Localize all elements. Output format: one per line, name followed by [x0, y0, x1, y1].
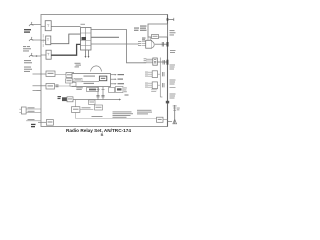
relay box R1 — [87, 88, 99, 92]
wire stub 600-ohm line 2 — [33, 85, 47, 87]
jack J2 box — [46, 36, 51, 45]
wire from W1 to frame — [32, 24, 41, 26]
right margin label 1b — [170, 65, 176, 70]
modem main box — [72, 74, 111, 87]
wire J4 line 1 — [26, 108, 41, 110]
jack J1 box — [45, 21, 51, 31]
filter FL2 pin labels — [145, 83, 148, 88]
modem dark module — [99, 76, 106, 81]
long wire label — [92, 116, 103, 117]
antenna base ground line — [173, 123, 178, 125]
right margin label 3 (TO...) — [170, 94, 176, 99]
R1 dark label — [89, 89, 96, 91]
modem second side box — [66, 79, 73, 83]
antenna AT1 element ticks — [173, 106, 177, 110]
terminal strip TB1 — [81, 28, 92, 51]
C2 inner label — [48, 85, 54, 86]
connector W3 squiggle — [29, 53, 33, 57]
filter FL1 pin stubs — [147, 72, 152, 76]
control box C1 (mid-left) — [46, 71, 55, 77]
TB1 pin 1 lead — [85, 50, 87, 57]
label under FL2 — [151, 89, 157, 92]
pin labels P1 — [138, 41, 141, 46]
power box PS1 — [67, 97, 73, 102]
wire to PP1 from frame — [38, 121, 46, 123]
output label 2 — [118, 79, 124, 80]
modem side box — [66, 73, 74, 78]
wire stub 600-ohm line 1 — [33, 73, 47, 75]
connector W1 squiggle (top left, outside frame) — [29, 22, 33, 26]
right bus (vertical rail on right frame edge) — [167, 15, 169, 127]
filter FL2 pin stubs — [147, 83, 152, 87]
PS1 label — [68, 98, 72, 99]
figure caption — [0, 128, 199, 133]
junction node on W3 wire — [36, 55, 38, 57]
bus node top — [167, 18, 169, 20]
amplifier box AM1 — [72, 107, 80, 113]
label TO ANT (right of bus, upper) — [170, 30, 176, 36]
tick from bottom-right box to bus — [163, 119, 168, 121]
control box C2 — [46, 84, 55, 90]
bus node at K1 wire — [167, 60, 169, 65]
modem lower-left cell — [70, 82, 76, 86]
wire C1 to modem — [55, 74, 66, 76]
pin stubs into connector P1 — [142, 42, 146, 46]
connector P1 circular shell — [152, 41, 154, 47]
right margin label 1 — [170, 50, 176, 53]
modem inner small box text — [75, 79, 81, 80]
label above TB1 — [81, 24, 86, 25]
modem internal text 2 — [84, 83, 95, 84]
wire A: TB1 to relay K1 (stepped long run) — [91, 30, 146, 63]
wire C: TB1 to connector P1 — [91, 43, 139, 45]
label TEL line group (bold tiny text) — [24, 29, 31, 33]
wire AM1 top to PS1 row — [75, 100, 77, 107]
wire from W2 to frame — [32, 39, 41, 41]
antenna AT1 mast — [174, 105, 176, 124]
label W2 near wire C — [142, 38, 146, 41]
antenna AT1 base legs — [173, 119, 177, 124]
jack J3 glyph — [47, 53, 49, 55]
filter FL2 body — [152, 82, 157, 89]
label at arrow — [125, 95, 129, 96]
battery box PP1 — [46, 120, 53, 126]
power dark module — [62, 97, 67, 101]
link feed box to P1 — [148, 37, 150, 40]
connector mark P1 row — [162, 42, 163, 47]
filter FL1 pin labels — [145, 72, 148, 77]
TB1 pin 1 arrowhead — [85, 56, 87, 58]
AM1 label — [73, 109, 79, 110]
label near wire A — [134, 28, 139, 31]
output label 1 — [118, 74, 125, 75]
PP1 label — [48, 121, 53, 122]
output arrow 1 — [111, 74, 116, 76]
relay K1 inner mark — [154, 60, 156, 63]
wire FL1 to cable rail — [158, 73, 161, 75]
output arrow 2 — [111, 78, 116, 80]
wire frame to J1 — [41, 25, 45, 27]
output arrow 3 — [111, 83, 116, 85]
wire B: TB1 spare lead — [91, 36, 119, 38]
vertical lead right — [102, 87, 104, 100]
wire from W3 to frame — [32, 55, 41, 57]
connector W2 squiggle — [29, 37, 33, 41]
label RF cable assy (left of box) — [140, 26, 147, 31]
small box on feed box bottom edge — [152, 35, 159, 39]
label group 4 — [24, 67, 32, 73]
small box row: box S2 — [109, 87, 115, 92]
bottom right box label — [158, 119, 162, 120]
wire frame to J2 — [41, 39, 46, 41]
tiny label in small box — [153, 36, 158, 37]
rail end hook — [160, 96, 162, 98]
wire PS1 across to arrow — [73, 99, 120, 101]
TB1 pin 2 lead — [88, 50, 90, 57]
relay K1 pin labels — [144, 58, 147, 63]
jack J2 glyph — [47, 39, 49, 41]
wire P1 to bus — [155, 43, 168, 45]
antenna label — [177, 108, 180, 111]
capacitor ticks on right lead — [101, 95, 104, 97]
schematic sheet frame — [41, 15, 168, 127]
stub to antenna lead — [168, 18, 175, 20]
modem second side box label — [67, 80, 72, 81]
small box row: box S3 w dark label — [116, 87, 124, 93]
jack J3 box — [46, 50, 51, 59]
modem dark module label — [101, 78, 106, 79]
power label dark text — [58, 96, 62, 99]
wire frame to J3 — [41, 54, 46, 56]
junction box label — [90, 102, 95, 103]
TB1 dark contact mark — [82, 37, 87, 40]
TB1 row lines — [80, 33, 91, 46]
lower box — [95, 105, 103, 110]
label group 2 — [23, 46, 31, 52]
antenna lead from bus — [168, 121, 173, 123]
TB1 center divider — [85, 28, 87, 51]
wire FL2 to cable rail — [158, 84, 161, 86]
wire J4 line 1 label — [28, 107, 35, 108]
connector mark K1 row — [163, 60, 164, 65]
tiny text above frame bottom left — [37, 90, 41, 91]
wire J4 line 2 — [26, 112, 41, 114]
filter FL1 body — [152, 71, 157, 78]
long wire to bottom right box — [75, 112, 77, 118]
wire J4 line 2 label — [28, 111, 35, 112]
battery label outside (dark) — [31, 124, 36, 128]
relay K1 pin stubs — [146, 59, 153, 63]
wire J4 line 3 label — [28, 119, 35, 120]
stub end tick — [173, 18, 175, 21]
connector box J4 (outside lower-left) — [21, 107, 26, 114]
wire J1 to terminal strip TB1 — [51, 26, 80, 28]
wire AM1 label — [82, 107, 91, 108]
C1 inner label — [48, 73, 54, 74]
relay K1 body — [153, 58, 158, 65]
figure sheet letter — [2, 133, 202, 137]
right margin label 2 — [170, 80, 176, 85]
wire K1 to bus — [157, 61, 167, 63]
vertical lead left (from modem down) — [97, 87, 99, 101]
cable loop arc — [91, 66, 102, 72]
bus connector tick — [166, 101, 169, 104]
lower box label — [96, 107, 102, 108]
connector mark FL1 — [163, 72, 164, 76]
label group 3 — [24, 60, 32, 63]
connector mark FL2 — [163, 83, 164, 87]
notes text block 1 — [113, 111, 134, 117]
bus node at wire C — [167, 42, 169, 47]
TB1 pin 2 arrowhead — [88, 56, 90, 58]
bottom right small box — [157, 117, 164, 122]
text under modem box — [76, 87, 83, 88]
wire J4 line 3 — [26, 120, 41, 122]
label above modem box — [75, 63, 82, 68]
notes text block 2 — [137, 110, 152, 115]
tick below label 2 — [170, 87, 176, 89]
connector P1 body (box) — [146, 40, 152, 48]
wire J3 to TB1 (heavy stepped) — [51, 44, 80, 55]
C2 side label — [56, 85, 59, 88]
jack J1 glyph — [47, 25, 49, 27]
J4 left pin stubs — [19, 109, 21, 112]
capacitor C5 plates upper — [97, 88, 105, 90]
modem inner small box — [74, 78, 82, 82]
wire J2 to TB1 (stepped) — [51, 34, 81, 44]
wire AM1 right — [80, 108, 93, 110]
output label 3 — [118, 83, 125, 84]
modem header text — [84, 76, 96, 77]
cap symbol labels column — [124, 88, 127, 93]
capacitor ticks on left lead — [96, 95, 99, 97]
modem side box label — [67, 74, 73, 75]
junction box — [89, 100, 96, 104]
faint vertical cable label — [42, 34, 45, 47]
antenna feed box (top right) — [148, 24, 168, 37]
wire stub 600-ohm line 3 — [33, 90, 42, 92]
cable rail (light vertical) — [159, 58, 161, 98]
wire C2 to modem lower cell — [55, 85, 71, 87]
modem internal divider — [72, 81, 99, 83]
